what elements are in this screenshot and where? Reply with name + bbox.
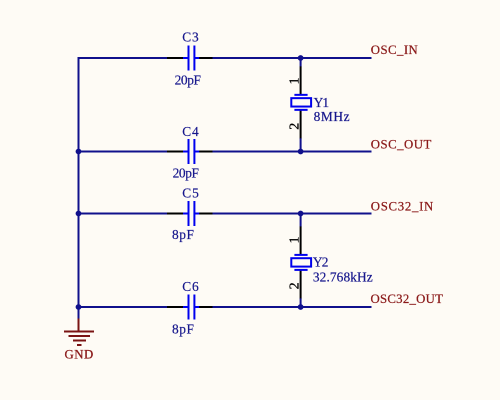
svg-text:8pF: 8pF bbox=[172, 321, 194, 336]
svg-text:2: 2 bbox=[287, 282, 302, 289]
svg-text:1: 1 bbox=[287, 78, 302, 85]
capacitor C3 bbox=[167, 46, 213, 71]
svg-text:2: 2 bbox=[287, 123, 302, 130]
wire OSC32_OUT right segment bbox=[213, 306, 372, 308]
svg-text:1: 1 bbox=[287, 237, 302, 244]
svg-text:Y2: Y2 bbox=[313, 255, 329, 270]
wire Y2 pin2 stub bbox=[300, 298, 302, 307]
capacitor C4 bbox=[167, 139, 213, 164]
junction dot Y2 bottom bbox=[298, 304, 304, 310]
svg-text:C3: C3 bbox=[182, 30, 199, 45]
svg-text:32.768kHz: 32.768kHz bbox=[313, 269, 373, 284]
wire Y1 pin1 stub bbox=[300, 58, 302, 67]
svg-text:C5: C5 bbox=[182, 186, 199, 201]
svg-text:8MHz: 8MHz bbox=[314, 109, 350, 124]
wire GND stub navy bbox=[78, 307, 80, 319]
svg-text:C6: C6 bbox=[182, 279, 199, 294]
junction dot Y1 top bbox=[298, 55, 304, 61]
svg-text:GND: GND bbox=[65, 347, 94, 361]
junction dot left C6 row bbox=[76, 304, 82, 310]
crystal Y1 bbox=[291, 66, 311, 138]
junction dot Y1 bottom bbox=[298, 149, 304, 155]
junction dot left C4 row bbox=[76, 149, 82, 155]
svg-text:20pF: 20pF bbox=[175, 72, 201, 87]
wire Y2 pin1 stub bbox=[300, 214, 302, 227]
wire OSC32_IN right segment bbox=[213, 213, 372, 215]
junction dot left C5 row bbox=[76, 211, 82, 217]
svg-text:8pF: 8pF bbox=[172, 227, 194, 242]
svg-text:C4: C4 bbox=[182, 124, 199, 139]
svg-text:OSC32_IN: OSC32_IN bbox=[371, 199, 434, 213]
wire OSC_OUT left segment bbox=[79, 151, 168, 153]
wire OSC32_IN left segment bbox=[79, 213, 168, 215]
svg-text:OSC_IN: OSC_IN bbox=[371, 43, 418, 57]
wire Y1 pin2 stub bbox=[300, 138, 302, 152]
wire OSC_IN left segment bbox=[78, 57, 168, 59]
ground symbol GND bbox=[64, 319, 94, 346]
wire OSC32_OUT left segment bbox=[79, 306, 168, 308]
junction dot Y2 top bbox=[298, 211, 304, 217]
svg-text:OSC32_OUT: OSC32_OUT bbox=[371, 292, 444, 306]
capacitor C6 bbox=[167, 295, 213, 320]
wire OSC_IN right segment bbox=[213, 57, 372, 59]
capacitor C5 bbox=[167, 201, 213, 226]
crystal Y2 bbox=[291, 226, 311, 298]
svg-text:20pF: 20pF bbox=[173, 166, 199, 181]
svg-text:OSC_OUT: OSC_OUT bbox=[371, 138, 432, 152]
wire left vertical bus bbox=[78, 58, 80, 307]
wire OSC_OUT right segment bbox=[213, 151, 372, 153]
svg-text:Y1: Y1 bbox=[314, 95, 330, 110]
